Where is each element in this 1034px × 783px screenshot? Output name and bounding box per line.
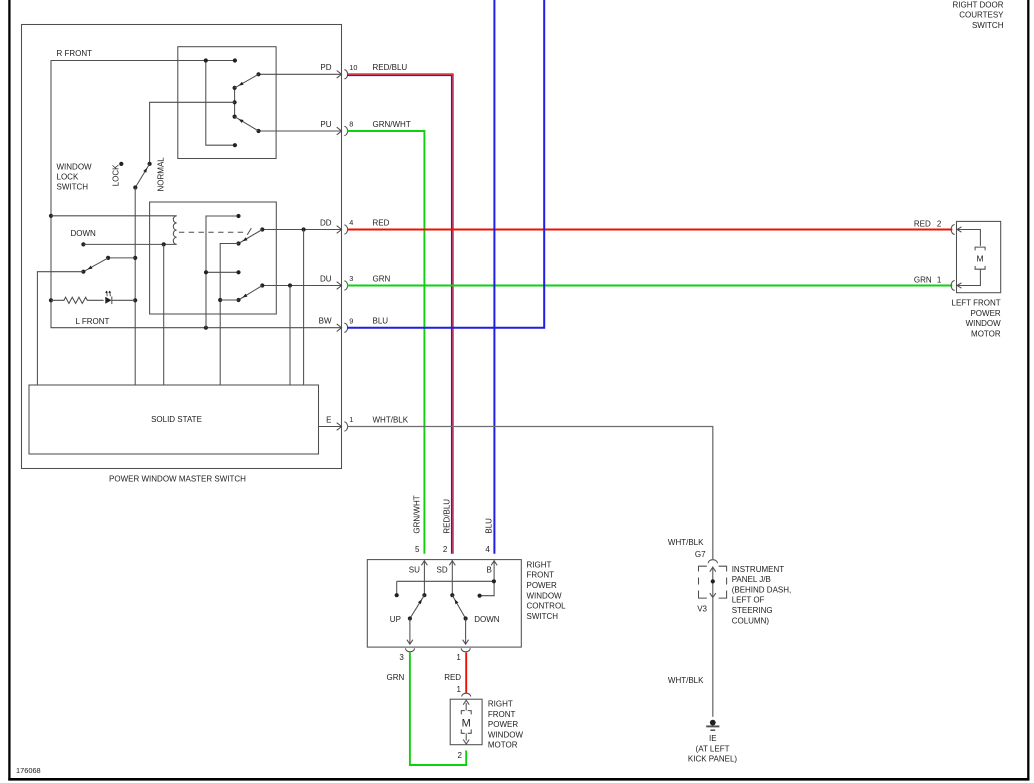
pin number 4: [485, 545, 490, 554]
svg-text:4: 4: [349, 218, 353, 227]
wire DD drop to solid state: [303, 230, 305, 386]
wire upper contact column: [234, 88, 236, 117]
svg-text:BLU: BLU: [373, 317, 389, 326]
label DOWN (control): [474, 615, 500, 624]
svg-text:PANEL J/B: PANEL J/B: [732, 575, 771, 584]
label L FRONT: [76, 317, 110, 326]
wire normal-lock link: [150, 102, 235, 163]
right motor box: [450, 699, 482, 745]
label WHT/BLK upper: [668, 538, 704, 547]
node DD riser junction: [218, 298, 222, 302]
wire GRN (DU to left motor): [347, 285, 952, 287]
svg-text:SD: SD: [437, 566, 448, 575]
wire RED/BLU (PD to SD): [347, 74, 453, 554]
label B: [487, 566, 492, 575]
svg-text:SWITCH: SWITCH: [972, 21, 1004, 30]
node upper contact b: [233, 115, 237, 119]
wire DOWN drop: [163, 244, 165, 385]
label DOWN: [71, 229, 97, 238]
ground IE symbol: [706, 720, 719, 731]
svg-text:GRN/WHT: GRN/WHT: [373, 120, 411, 129]
svg-text:WHT/BLK: WHT/BLK: [668, 538, 704, 547]
node PD common: [256, 72, 260, 76]
relay coil: [173, 216, 176, 245]
svg-text:SWITCH: SWITCH: [57, 183, 89, 192]
label GRN/WHT vertical: [413, 495, 422, 533]
svg-text:LEFT FRONT: LEFT FRONT: [952, 299, 1001, 308]
node DU wire junction: [288, 283, 292, 287]
node junction bus/lower-box: [204, 326, 208, 330]
label GRN 1: [914, 276, 942, 285]
node lock arm bottom: [133, 185, 137, 189]
label R FRONT: [57, 49, 93, 58]
svg-text:3: 3: [399, 653, 404, 662]
svg-text:DOWN: DOWN: [474, 615, 500, 624]
switch arm UP: [410, 595, 425, 618]
svg-text:1: 1: [349, 415, 353, 424]
svg-text:1: 1: [456, 653, 461, 662]
svg-text:2: 2: [457, 751, 462, 760]
svg-text:LEFT OF: LEFT OF: [732, 596, 765, 605]
led emission arrows: [105, 291, 111, 297]
svg-text:RIGHT DOOR: RIGHT DOOR: [953, 0, 1004, 9]
node lower box top contact: [236, 214, 240, 218]
svg-text:COLUMN): COLUMN): [732, 616, 770, 625]
node lock drop / led: [133, 298, 137, 302]
svg-text:WINDOW: WINDOW: [488, 730, 524, 739]
wire control bus: [397, 580, 494, 582]
svg-text:E: E: [326, 415, 331, 424]
node upper feed bottom end: [233, 143, 237, 147]
svg-text:SWITCH: SWITCH: [527, 612, 559, 621]
wire upper contact riser: [206, 216, 239, 328]
svg-text:DU: DU: [320, 274, 332, 283]
svg-text:1: 1: [456, 685, 461, 694]
node DU common: [260, 283, 264, 287]
node junction R-front/resistor: [49, 298, 53, 302]
node mid contact left: [204, 270, 208, 274]
svg-text:B: B: [487, 566, 492, 575]
wire WHT/BLK (J/B to ground): [712, 598, 714, 717]
svg-text:POWER: POWER: [488, 720, 518, 729]
wire BLU (BW to courtesy switch): [347, 0, 544, 328]
svg-text:M: M: [977, 254, 984, 264]
pin number 2 (motor): [457, 751, 462, 760]
wire upper feed vertical: [206, 61, 235, 146]
node mid switch bottom: [81, 270, 85, 274]
node DD common: [260, 227, 264, 231]
left motor box: [957, 221, 1001, 292]
label INSTRUMENT PANEL J/B: [732, 565, 792, 626]
wire PU common: [259, 130, 342, 132]
pin number 5: [415, 545, 420, 554]
led diode: [105, 297, 112, 305]
svg-text:UP: UP: [390, 615, 401, 624]
svg-text:GRN: GRN: [914, 276, 932, 285]
wire RED (DD to left motor): [347, 229, 952, 231]
svg-text:8: 8: [349, 120, 353, 129]
node DOWN terminal: [81, 242, 85, 246]
svg-text:GRN: GRN: [387, 673, 405, 682]
pin 1 stem: [463, 619, 469, 645]
node DD contact: [236, 241, 240, 245]
node UP common: [408, 616, 412, 620]
label LOCK: [111, 164, 120, 186]
node lock contact: [119, 162, 123, 166]
label RIGHT FRONT POWER WINDOW CONTROL SWITCH: [527, 560, 567, 621]
right motor top bracket: [461, 711, 471, 715]
wire DD contact riser: [220, 244, 238, 386]
svg-text:LOCK: LOCK: [57, 173, 79, 182]
left motor top bracket: [975, 247, 985, 250]
node upper contact mid: [233, 100, 237, 104]
node mid contact right: [236, 270, 240, 274]
drawing number 176068: [16, 766, 41, 775]
switch arm window lock: [135, 164, 149, 188]
right motor pin2 arrow: [463, 733, 469, 744]
svg-text:KICK PANEL): KICK PANEL): [688, 755, 738, 764]
svg-text:FRONT: FRONT: [527, 571, 555, 580]
svg-text:INSTRUMENT: INSTRUMENT: [732, 565, 785, 574]
wire DU contact stub: [220, 299, 238, 301]
node PU common: [256, 129, 260, 133]
label RED: [444, 673, 461, 682]
svg-text:WHT/BLK: WHT/BLK: [373, 415, 409, 424]
svg-text:STEERING: STEERING: [732, 606, 773, 615]
J/B dashed box: [699, 566, 727, 598]
connector pin DD 4: [320, 218, 390, 234]
control switch box: [367, 560, 521, 648]
solid state box: [29, 385, 319, 454]
label UP: [390, 615, 401, 624]
svg-text:RIGHT: RIGHT: [488, 700, 513, 709]
left motor pin1 socket arc: [951, 281, 955, 291]
svg-text:CONTROL: CONTROL: [527, 602, 567, 611]
right motor pin1 arrow: [463, 700, 469, 710]
svg-text:MOTOR: MOTOR: [488, 741, 518, 750]
svg-text:GRN/WHT: GRN/WHT: [413, 495, 422, 533]
pin number 3: [399, 653, 404, 662]
svg-text:WINDOW: WINDOW: [966, 319, 1002, 328]
svg-text:BLU: BLU: [485, 518, 494, 534]
svg-text:(BEHIND DASH,: (BEHIND DASH,: [732, 585, 792, 594]
svg-text:2: 2: [443, 545, 448, 554]
svg-text:10: 10: [349, 63, 357, 72]
svg-text:POWER: POWER: [527, 581, 557, 590]
svg-text:SU: SU: [409, 566, 420, 575]
connector pin PD 10: [320, 63, 407, 79]
label WINDOW LOCK SWITCH: [57, 163, 93, 192]
wire PD common: [259, 73, 342, 75]
page left border: [8, 0, 10, 781]
node SD contact: [450, 593, 454, 597]
left motor pin2 socket arc: [951, 225, 955, 235]
node DOWN/solid-state junction: [162, 242, 166, 246]
node mid switch top: [106, 256, 110, 260]
right motor M: [462, 718, 471, 730]
left motor M: [977, 254, 984, 264]
svg-text:R FRONT: R FRONT: [57, 49, 93, 58]
svg-text:DOWN: DOWN: [71, 229, 97, 238]
upper switch box: [178, 47, 276, 159]
node upper feed top end: [233, 58, 237, 62]
wire GRN (pin3 to motor pin2): [410, 653, 466, 766]
node bus drop end: [395, 593, 399, 597]
switch arm DU: [239, 286, 263, 301]
connector pin PU 8: [320, 120, 410, 136]
wire led to lock drop: [112, 299, 135, 301]
svg-text:1: 1: [937, 276, 942, 285]
svg-text:DD: DD: [320, 218, 332, 227]
label SU: [409, 566, 420, 575]
node bus/B junction: [492, 579, 496, 583]
svg-text:PU: PU: [320, 120, 331, 129]
node lock drop / mid switch: [133, 256, 137, 260]
J/B internal wire: [710, 567, 716, 598]
node B contact: [478, 594, 482, 598]
label V3: [697, 605, 707, 614]
wire RED (pin1 to motor pin1): [465, 653, 467, 694]
power window master switch box: [22, 25, 342, 469]
pin 3 stem: [407, 619, 413, 645]
node upper feed top: [204, 58, 208, 62]
wire lock switch drop: [134, 188, 136, 386]
label GRN: [387, 673, 405, 682]
svg-text:M: M: [462, 718, 471, 730]
svg-text:BW: BW: [319, 317, 332, 326]
svg-text:(AT LEFT: (AT LEFT: [696, 744, 730, 753]
wire WHT/BLK (E to J/B): [347, 427, 713, 560]
page bottom border: [8, 778, 1029, 781]
pin number 1: [456, 653, 461, 662]
lower switch box: [150, 202, 277, 314]
wire DD common: [262, 229, 341, 231]
wire mid switch drop: [37, 272, 83, 385]
label BLU vertical: [485, 518, 494, 534]
motor pin1 socket arc: [462, 693, 471, 696]
switch arm DOWN: [452, 595, 465, 618]
pin 3 socket arc: [406, 648, 415, 652]
svg-text:LOCK: LOCK: [111, 164, 120, 186]
mech link dashed: [179, 228, 251, 235]
svg-text:9: 9: [349, 316, 353, 325]
pin 1 socket arc: [461, 648, 470, 652]
svg-text:RED: RED: [444, 673, 461, 682]
wire coil top feed: [51, 215, 177, 217]
left motor pin1 wire: [957, 269, 980, 288]
svg-text:NORMAL: NORMAL: [156, 157, 165, 192]
label RIGHT FRONT POWER WINDOW MOTOR: [488, 700, 524, 750]
connector pin E 1: [326, 415, 409, 431]
svg-text:FRONT: FRONT: [488, 710, 516, 719]
label LEFT FRONT POWER WINDOW MOTOR: [952, 299, 1002, 339]
connector pin DU 3: [320, 274, 391, 290]
svg-text:COURTESY: COURTESY: [959, 11, 1004, 20]
node DOWN common: [464, 616, 468, 620]
node upper contact a: [233, 86, 237, 90]
switch arm PD: [235, 74, 259, 88]
svg-text:RED: RED: [373, 218, 390, 227]
svg-text:L FRONT: L FRONT: [76, 317, 110, 326]
svg-text:WINDOW: WINDOW: [57, 163, 93, 172]
label SOLID STATE: [151, 415, 202, 424]
svg-text:5: 5: [415, 545, 420, 554]
wire DU common: [262, 285, 341, 287]
svg-text:MOTOR: MOTOR: [971, 330, 1001, 339]
svg-text:WINDOW: WINDOW: [527, 591, 563, 600]
svg-text:IE: IE: [709, 734, 717, 743]
left motor bottom bracket: [975, 266, 985, 269]
label RIGHT DOOR COURTESY SWITCH: [953, 0, 1005, 30]
page right border: [1027, 0, 1029, 781]
label SD: [437, 566, 448, 575]
svg-text:3: 3: [349, 274, 353, 283]
svg-text:POWER WINDOW MASTER SWITCH: POWER WINDOW MASTER SWITCH: [109, 474, 246, 483]
pin B stem: [480, 560, 498, 596]
node DD wire junction: [302, 227, 306, 231]
svg-text:176068: 176068: [16, 766, 41, 775]
node SU contact: [422, 593, 426, 597]
label RED/BLU vertical: [443, 499, 452, 534]
wire E output: [319, 426, 342, 428]
svg-text:PD: PD: [320, 63, 331, 72]
svg-text:V3: V3: [697, 605, 707, 614]
label G7: [695, 550, 706, 559]
wire GRN/WHT (PU to SU): [347, 131, 424, 554]
J/B G7 socket arc: [708, 560, 717, 564]
svg-text:POWER: POWER: [970, 309, 1000, 318]
wire control bus drop: [396, 581, 398, 595]
right motor bottom bracket: [461, 729, 471, 733]
svg-text:4: 4: [485, 545, 490, 554]
pin number 1 (motor): [456, 685, 461, 694]
label WHT/BLK lower: [668, 676, 704, 685]
svg-text:RED: RED: [914, 219, 931, 228]
svg-text:RED/BLU: RED/BLU: [373, 63, 408, 72]
node junction R-front/coil: [49, 214, 53, 218]
svg-text:WHT/BLK: WHT/BLK: [668, 676, 704, 685]
svg-text:SOLID STATE: SOLID STATE: [151, 415, 202, 424]
switch arm mid: [83, 258, 108, 272]
node J/B junction: [711, 579, 715, 583]
label IE: [709, 734, 717, 743]
wire DOWN to coil: [83, 243, 176, 245]
wire DU drop to solid state: [289, 286, 291, 386]
label RED 2: [914, 219, 942, 228]
wire mid contact stub: [206, 271, 239, 273]
svg-text:GRN: GRN: [373, 274, 391, 283]
label AT LEFT KICK PANEL: [688, 744, 738, 763]
switch arm PU: [235, 117, 259, 131]
wire BLU (B to courtesy switch): [493, 0, 495, 554]
wire mid switch link: [108, 257, 135, 259]
left motor pin2 wire: [957, 227, 980, 246]
node DU contact: [236, 298, 240, 302]
svg-text:RED/BLU: RED/BLU: [443, 499, 452, 534]
svg-text:2: 2: [937, 219, 942, 228]
pin SU stem: [421, 560, 427, 595]
svg-text:G7: G7: [695, 550, 706, 559]
pin number 2: [443, 545, 448, 554]
resistor: [51, 297, 104, 303]
label POWER WINDOW MASTER SWITCH: [109, 474, 246, 483]
pin SD stem: [449, 560, 455, 595]
switch arm DD: [239, 230, 263, 244]
label NORMAL: [156, 157, 165, 192]
wire R FRONT feed / L FRONT bus: [51, 61, 341, 328]
svg-text:RIGHT: RIGHT: [527, 560, 552, 569]
connector pin BW 9: [319, 316, 389, 332]
node lock normal: [148, 162, 152, 166]
